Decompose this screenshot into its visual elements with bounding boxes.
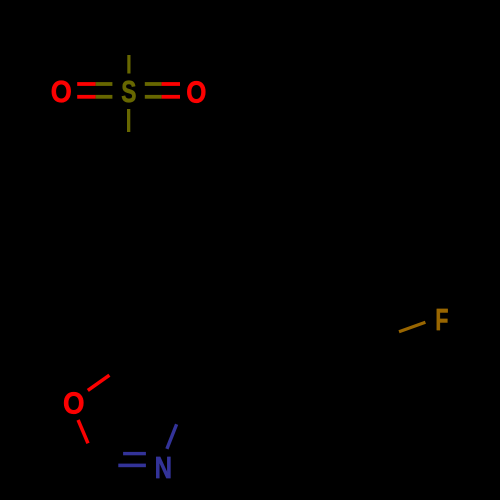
svg-text:N: N	[155, 450, 172, 484]
svg-text:F: F	[435, 302, 448, 337]
svg-text:O: O	[186, 75, 206, 110]
svg-text:S: S	[121, 75, 136, 109]
svg-text:O: O	[63, 387, 85, 421]
svg-text:O: O	[51, 75, 72, 109]
